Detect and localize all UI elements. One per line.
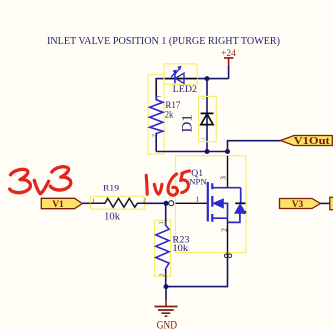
svg-text:2k: 2k bbox=[165, 111, 174, 121]
port V1Out bbox=[281, 136, 333, 147]
svg-text:1: 1 bbox=[196, 196, 200, 204]
Q1 drain horizontal bbox=[212, 187, 240, 189]
port V3 bbox=[280, 199, 321, 211]
wire +24 stem down to LED rail bbox=[228, 66, 230, 79]
wire gate node to R23 bbox=[165, 203, 167, 226]
svg-text:1: 1 bbox=[92, 198, 95, 204]
wire R23 to bottom node bbox=[165, 270, 167, 287]
svg-text:2: 2 bbox=[143, 198, 146, 204]
Q1 body diode cathode bar bbox=[235, 202, 245, 204]
junction top rail / D1 cathode bbox=[205, 76, 210, 81]
R17 zigzag bbox=[150, 97, 163, 137]
Q1 gate bar bbox=[207, 182, 209, 222]
R23 part box bbox=[155, 220, 171, 276]
R17 pin 1 lead bbox=[155, 81, 157, 100]
junction output rail / D1 anode bbox=[205, 149, 210, 154]
svg-text:NPN: NPN bbox=[189, 176, 207, 186]
diode D1 bbox=[179, 96, 216, 141]
R17 pin 2 lead bbox=[155, 133, 157, 152]
svg-text:R19: R19 bbox=[103, 183, 120, 193]
junction gate node (R19/R23/Q1 gate) bbox=[164, 201, 169, 206]
svg-text:D1: D1 bbox=[179, 114, 195, 132]
LED LED2 bbox=[164, 64, 197, 95]
resistor R19 bbox=[91, 183, 167, 223]
Q1 drain pin bbox=[227, 156, 229, 188]
Q1 body diode leads bbox=[228, 188, 241, 223]
svg-text:V1: V1 bbox=[52, 200, 64, 210]
D1 part box bbox=[199, 96, 217, 141]
wire D1 branch (top rail to output rail) bbox=[206, 79, 208, 152]
resistor R23 bbox=[155, 203, 190, 286]
R19 part box bbox=[91, 196, 145, 209]
svg-text:V1Out: V1Out bbox=[294, 136, 331, 147]
wire left drop (LED anode to R17 top) bbox=[155, 78, 157, 100]
junction output rail / Q1 drain bbox=[225, 149, 230, 154]
LED2 part box bbox=[164, 64, 197, 85]
Q1 channel (dashed) bbox=[211, 183, 213, 222]
svg-text:2: 2 bbox=[152, 134, 158, 137]
D1 cathode bar bbox=[201, 112, 214, 114]
power +24 bbox=[221, 49, 236, 67]
svg-text:1: 1 bbox=[156, 95, 162, 98]
annotation 1v65 (red handwriting) bbox=[146, 171, 189, 195]
wire R19 to gate node bbox=[145, 202, 167, 204]
wire top rail (LED cathode to +24) bbox=[156, 78, 228, 80]
Q1 source pin bbox=[227, 219, 229, 253]
Q1 source horizontals bbox=[212, 203, 227, 218]
LED2 cathode bar bbox=[174, 73, 176, 83]
resistor R17 bbox=[148, 75, 181, 154]
D1 triangle bbox=[201, 114, 213, 125]
port V1 bbox=[41, 198, 82, 210]
svg-text:2: 2 bbox=[159, 273, 165, 276]
R23 zigzag bbox=[156, 222, 169, 272]
svg-text:V3: V3 bbox=[292, 200, 304, 210]
svg-text:LED2: LED2 bbox=[173, 85, 198, 95]
ground GND bbox=[155, 300, 178, 330]
wire V3 to edge connector bbox=[320, 202, 330, 204]
wire source to bottom node bbox=[166, 253, 228, 287]
title text INLET VALVE POSITION 1 (PURGE RIGHT TOWER) bbox=[47, 35, 280, 47]
Q1 gate pin-end mark bbox=[169, 201, 174, 206]
wire V1 to R19 bbox=[82, 202, 92, 204]
wire node to ground bbox=[165, 287, 167, 300]
LED2 triangle bbox=[175, 73, 184, 83]
svg-text:3: 3 bbox=[219, 176, 227, 180]
Q1 gate pin bbox=[176, 202, 208, 204]
wire output rail bbox=[156, 151, 227, 153]
Q1 substrate arrow bbox=[213, 199, 223, 208]
svg-text:1: 1 bbox=[159, 221, 165, 224]
wire to port V1Out bbox=[228, 141, 281, 152]
junction bottom node (R23/Q1 source/GND) bbox=[164, 284, 169, 289]
svg-text:1: 1 bbox=[201, 97, 207, 100]
Q1 body diode tick bbox=[244, 211, 246, 214]
svg-text:10k: 10k bbox=[104, 211, 121, 222]
R19 zigzag and leads bbox=[91, 198, 145, 207]
connector at right edge (cut off) bbox=[330, 197, 333, 209]
LED2 pins bbox=[164, 78, 197, 80]
Q1 part box bbox=[176, 156, 247, 253]
svg-text:10k: 10k bbox=[172, 244, 188, 254]
annotation 3v3 (red handwriting) bbox=[10, 167, 71, 194]
svg-text:2: 2 bbox=[221, 228, 229, 232]
Q1 body diode triangle bbox=[235, 204, 246, 214]
LED2 emission arrows bbox=[171, 69, 179, 78]
transistor Q1 bbox=[169, 156, 246, 258]
svg-text:INLET VALVE POSITION 1 (PURGE: INLET VALVE POSITION 1 (PURGE RIGHT TOWE… bbox=[47, 35, 280, 47]
svg-text:GND: GND bbox=[157, 318, 178, 330]
svg-text:R17: R17 bbox=[165, 101, 180, 111]
R17 part box bbox=[148, 75, 164, 154]
Q1 source pin-end mark bbox=[224, 254, 228, 258]
svg-text:2: 2 bbox=[201, 137, 207, 140]
